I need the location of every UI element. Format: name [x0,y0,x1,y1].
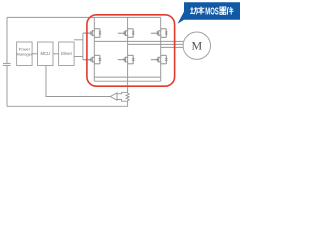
callout balloon 功率MOS器件 [178,2,240,24]
capacitor C1 [3,63,11,65]
wire leg A low [93,41,95,81]
label text 功率MOS器件 (drawn strokes) [190,7,204,15]
glyph 率 [198,7,205,15]
wire PM-MCU [32,53,37,55]
wire bottom rail return [94,80,160,82]
svg-text:Power: Power [19,46,31,51]
block U2 MCU [38,42,54,66]
wire bottom return [7,101,128,107]
wire gate bus vertical [82,33,84,60]
transistor Q4 low-side phase A [85,55,102,64]
wire leg B low [127,44,129,77]
op-amp U4 current sense [110,92,127,101]
motor M [183,32,210,59]
transistor Q1 high-side phase A [85,29,102,38]
wire left rail upper [6,17,8,63]
wire gate high Q1 [83,32,91,34]
svg-text:MCU: MCU [41,51,51,56]
svg-text:MOS: MOS [205,6,218,17]
wire drain Q2 [127,17,129,44]
svg-text:M: M [191,39,202,53]
wire phase A [94,40,183,42]
wire phase C [161,46,184,48]
wire MCU-Driver [53,53,59,55]
wire top rail VCC [7,16,161,18]
svg-text:Driver: Driver [61,51,73,56]
resistor R1 shunt [126,93,129,101]
wire phase B [128,43,184,45]
glyph 器 [219,7,226,14]
transistor Q5 low-side phase B [118,55,135,64]
block U1 Power Manager [17,42,32,66]
wire MCU sense feedback [46,66,110,97]
wire drain Q3 [160,17,162,47]
highlight box power MOS devices [87,15,175,86]
glyph 功 [190,7,197,14]
svg-text:Manager: Manager [17,52,33,57]
wire shunt tap vertical [127,77,129,93]
wire leg C low [160,47,162,81]
glyph 件 [228,7,234,15]
transistor Q3 high-side phase C [151,29,168,38]
wire driver output lower [74,56,83,58]
wire left rail lower [6,65,8,106]
wire drain Q1 [93,17,95,41]
block U3 Driver [59,42,75,66]
wire bottom rail source bus [94,76,160,78]
wire driver output upper [74,39,83,41]
transistor Q6 low-side phase C [151,55,168,64]
transistor Q2 high-side phase B [118,29,135,38]
wire gate low Q4 [83,59,91,61]
